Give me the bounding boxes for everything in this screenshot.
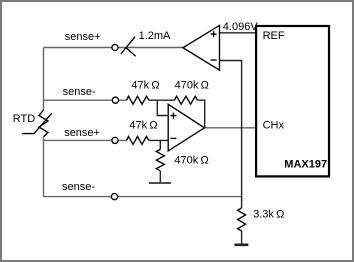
svg-text:MAX197: MAX197	[284, 158, 327, 170]
svg-text:CHx: CHx	[263, 120, 285, 132]
svg-text:47k Ω: 47k Ω	[129, 120, 157, 132]
svg-text:470k Ω: 470k Ω	[175, 80, 209, 92]
svg-text:470k Ω: 470k Ω	[174, 155, 208, 167]
svg-text:sense+: sense+	[64, 127, 100, 139]
svg-text:47k Ω: 47k Ω	[131, 80, 159, 92]
svg-text:sense+: sense+	[65, 31, 101, 43]
svg-text:RTD: RTD	[13, 113, 35, 125]
svg-text:sense-: sense-	[63, 86, 96, 98]
svg-text:REF: REF	[263, 30, 285, 42]
svg-text:4.096V: 4.096V	[223, 21, 259, 33]
svg-text:sense-: sense-	[62, 181, 95, 193]
svg-text:3.3k Ω: 3.3k Ω	[253, 209, 284, 221]
svg-text:1.2mA: 1.2mA	[139, 30, 171, 42]
